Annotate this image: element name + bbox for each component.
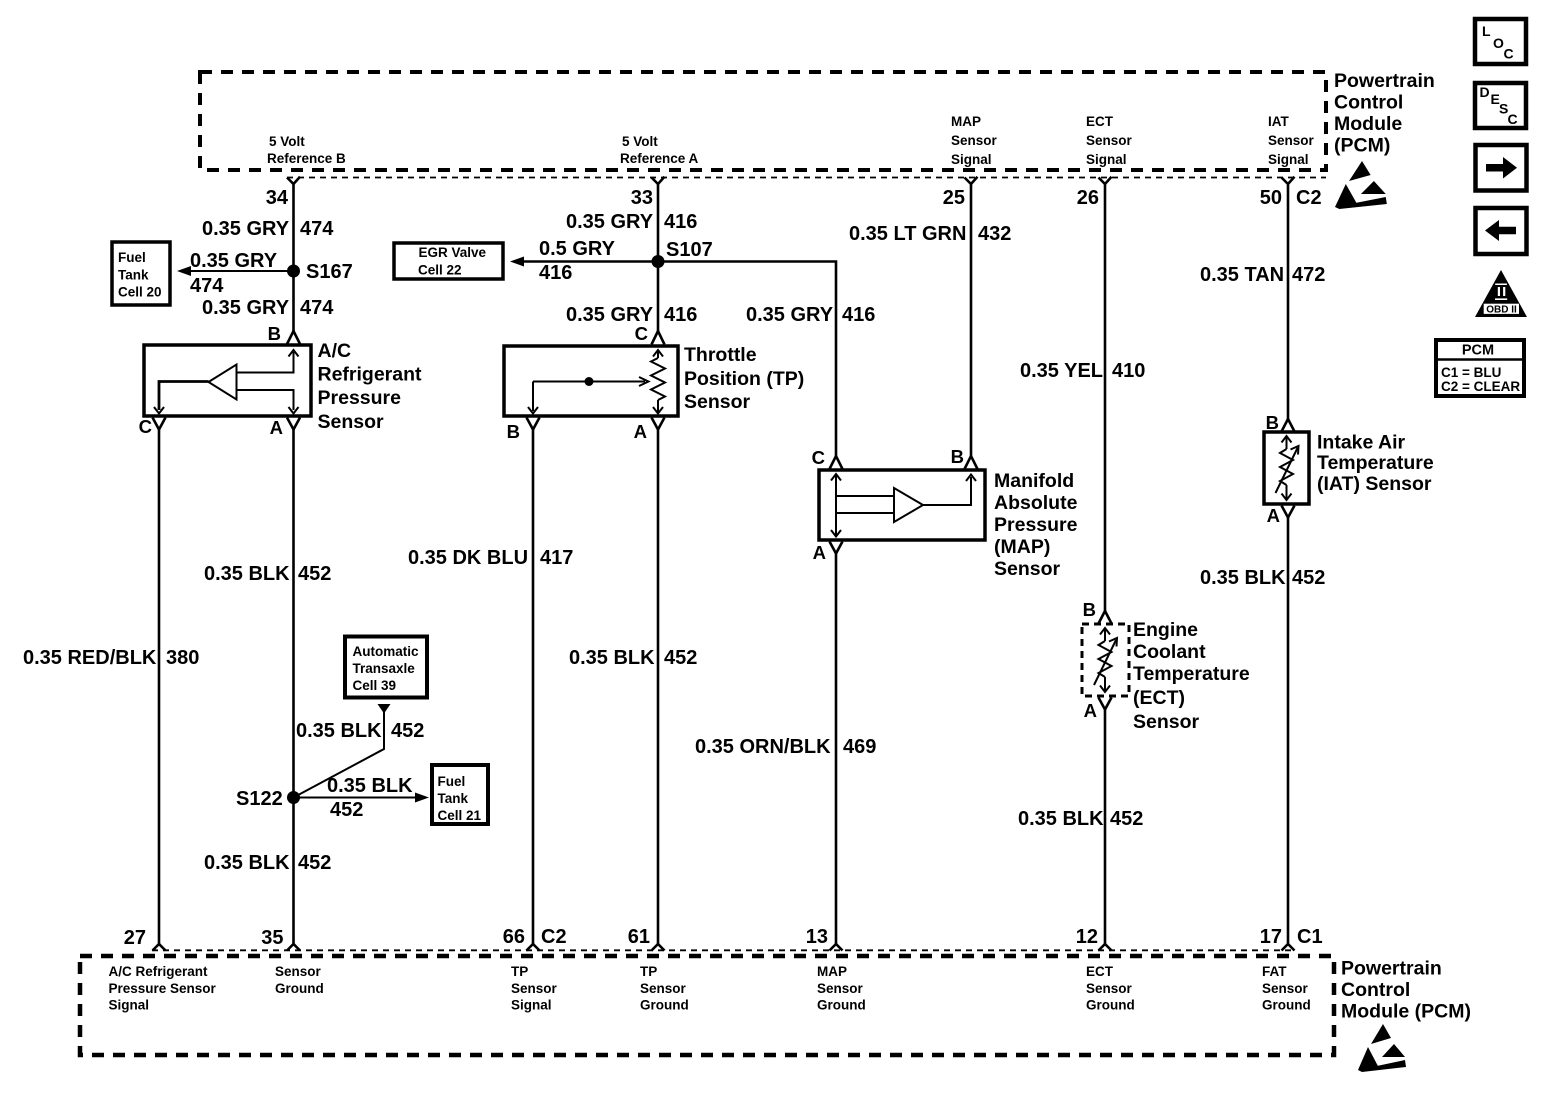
svg-text:416: 416 — [539, 262, 572, 284]
net label MAP Sensor Signal — [951, 114, 998, 167]
svg-text:B: B — [268, 323, 281, 344]
svg-text:C: C — [635, 323, 648, 344]
svg-text:Ground: Ground — [640, 998, 689, 1013]
pin 61 — [628, 926, 665, 951]
svg-text:TP: TP — [511, 964, 528, 979]
svg-text:17: 17 — [1260, 926, 1282, 948]
wire label 0.35 GRY 474 lower — [202, 297, 334, 319]
pin 66 C2 — [503, 926, 567, 951]
svg-text:C: C — [812, 447, 825, 468]
svg-text:0.35 BLK: 0.35 BLK — [1018, 808, 1104, 830]
svg-text:Sensor: Sensor — [511, 981, 558, 996]
svg-text:0.35 BLK: 0.35 BLK — [327, 775, 413, 797]
svg-text:452: 452 — [298, 563, 331, 585]
svg-text:25: 25 — [943, 187, 965, 209]
pin function label A/C Refrigerant Pressure Sensor Signal — [109, 964, 217, 1013]
splice S107 — [652, 239, 713, 268]
pin 17 C1 — [1260, 926, 1323, 951]
splice S122 — [236, 788, 300, 810]
svg-text:Position (TP): Position (TP) — [684, 368, 804, 390]
svg-text:A/C: A/C — [318, 340, 352, 362]
svg-text:Signal: Signal — [109, 998, 150, 1013]
Engine Coolant Temperature Sensor U4 (thermistor) — [1082, 624, 1129, 696]
svg-text:Temperature: Temperature — [1317, 452, 1434, 474]
wire label 0.35 GRY 416 lower (TP C) — [566, 304, 697, 326]
svg-text:50: 50 — [1260, 187, 1282, 209]
svg-text:5 Volt: 5 Volt — [269, 134, 305, 149]
wire 469 (MAP A to pin 13) — [835, 554, 838, 945]
svg-text:410: 410 — [1112, 360, 1145, 382]
PCM bottom dashed box — [80, 956, 1334, 1055]
svg-text:OBD II: OBD II — [1486, 304, 1517, 315]
wire 410 (pin 26 to ECT B) — [1104, 184, 1107, 611]
wire S122 branch to Fuel Tank Cell 21 — [294, 775, 430, 821]
svg-text:Sensor: Sensor — [1268, 133, 1315, 148]
svg-text:D: D — [1480, 84, 1490, 100]
svg-text:Reference A: Reference A — [620, 151, 699, 166]
svg-text:Control: Control — [1334, 92, 1403, 114]
svg-text:A: A — [813, 542, 826, 563]
svg-text:0.35 LT GRN: 0.35 LT GRN — [849, 223, 966, 245]
svg-text:26: 26 — [1077, 187, 1099, 209]
svg-text:416: 416 — [842, 304, 875, 326]
wire label 0.35 DK BLU 417 — [408, 547, 573, 569]
pin function label ECT Sensor Ground — [1086, 964, 1135, 1013]
pin function label Sensor Ground — [275, 964, 324, 996]
svg-text:452: 452 — [391, 720, 424, 742]
svg-text:0.35 DK BLU: 0.35 DK BLU — [408, 547, 528, 569]
svg-text:0.35 GRY: 0.35 GRY — [566, 211, 654, 233]
svg-text:35: 35 — [261, 927, 283, 949]
wire 452 (ECT A to pin 12) — [1104, 710, 1107, 945]
legend left-arrow icon — [1476, 208, 1527, 254]
svg-text:Sensor: Sensor — [1133, 711, 1200, 733]
svg-text:Absolute: Absolute — [994, 492, 1078, 514]
MAP sensor name — [994, 470, 1078, 580]
svg-text:PCM: PCM — [1462, 343, 1494, 359]
svg-text:Sensor: Sensor — [684, 391, 751, 413]
svg-text:27: 27 — [124, 927, 146, 949]
svg-text:Sensor: Sensor — [951, 133, 998, 148]
wire 416 (pin 33 to S107 to TP C) — [657, 184, 660, 331]
pin C of MAP sensor — [812, 447, 843, 469]
svg-text:Fuel: Fuel — [118, 250, 146, 265]
svg-text:ECT: ECT — [1086, 964, 1114, 979]
svg-text:432: 432 — [978, 223, 1011, 245]
svg-text:452: 452 — [1292, 567, 1325, 589]
svg-text:417: 417 — [540, 547, 573, 569]
svg-text:Throttle: Throttle — [684, 344, 757, 366]
svg-text:Sensor: Sensor — [994, 558, 1061, 580]
svg-text:0.35 ORN/BLK: 0.35 ORN/BLK — [695, 736, 831, 758]
svg-text:5 Volt: 5 Volt — [622, 134, 658, 149]
svg-text:MAP: MAP — [817, 964, 847, 979]
svg-text:Reference B: Reference B — [267, 151, 346, 166]
legend LOC icon — [1475, 19, 1526, 64]
svg-text:S122: S122 — [236, 788, 283, 810]
svg-text:O: O — [1493, 35, 1504, 51]
off-page ref Automatic Transaxle Cell 39 — [345, 637, 427, 698]
wire S107 branch to EGR Valve — [510, 238, 652, 284]
svg-text:B: B — [507, 421, 520, 442]
svg-text:Manifold: Manifold — [994, 470, 1074, 492]
svg-text:C2 = CLEAR: C2 = CLEAR — [1441, 379, 1520, 394]
legend PCM connector colors — [1436, 340, 1524, 396]
wire label 0.35 GRY 474 upper — [202, 218, 334, 240]
svg-text:IAT: IAT — [1268, 114, 1289, 129]
svg-text:MAP: MAP — [951, 114, 981, 129]
svg-text:0.5 GRY: 0.5 GRY — [539, 238, 616, 260]
wire label 0.35 BLK 452 (ECT ground) — [1018, 808, 1143, 830]
svg-text:Coolant: Coolant — [1133, 641, 1206, 663]
svg-text:Ground: Ground — [1262, 998, 1311, 1013]
svg-text:469: 469 — [843, 736, 876, 758]
wire label 0.35 YEL 410 — [1020, 360, 1145, 382]
svg-text:Control: Control — [1341, 979, 1410, 1001]
pin A of ECT sensor — [1084, 698, 1112, 722]
svg-text:Ground: Ground — [275, 981, 324, 996]
pin 50 C2 — [1260, 177, 1322, 209]
ECT sensor name — [1133, 619, 1250, 733]
pin 33 — [631, 177, 665, 209]
svg-text:Tank: Tank — [118, 267, 149, 282]
svg-text:34: 34 — [266, 187, 289, 209]
svg-text:Temperature: Temperature — [1133, 663, 1250, 685]
svg-text:452: 452 — [664, 647, 697, 669]
wire label 0.35 ORN/BLK 469 — [695, 736, 876, 758]
wire label 0.35 LT GRN 432 — [849, 223, 1011, 245]
svg-text:474: 474 — [300, 297, 334, 319]
svg-text:Ground: Ground — [817, 998, 866, 1013]
pin function label TP Sensor Signal — [511, 964, 558, 1013]
svg-text:(ECT): (ECT) — [1133, 687, 1185, 709]
svg-text:Cell 39: Cell 39 — [353, 678, 397, 693]
off-page ref Fuel Tank Cell 20 — [112, 242, 170, 305]
svg-text:C2: C2 — [1296, 187, 1322, 209]
wire 432 (pin 25 to MAP B) — [970, 184, 973, 456]
svg-text:C: C — [139, 416, 152, 437]
splice S167 — [287, 261, 353, 283]
svg-text:0.35 RED/BLK: 0.35 RED/BLK — [23, 647, 157, 669]
svg-text:380: 380 — [166, 647, 199, 669]
net label IAT Sensor Signal — [1268, 114, 1315, 167]
pin C of A/C sensor — [139, 416, 166, 437]
svg-text:C2: C2 — [541, 926, 567, 948]
svg-text:66: 66 — [503, 926, 525, 948]
svg-text:TP: TP — [640, 964, 657, 979]
svg-text:B: B — [1083, 599, 1096, 620]
svg-text:0.35 BLK: 0.35 BLK — [204, 852, 290, 874]
svg-text:Automatic: Automatic — [353, 644, 419, 659]
svg-text:0.35 YEL: 0.35 YEL — [1020, 360, 1103, 382]
A/C sensor name — [318, 340, 423, 433]
svg-text:Fuel: Fuel — [438, 774, 466, 789]
svg-text:Refrigerant: Refrigerant — [318, 364, 423, 386]
pin B of TP sensor — [507, 418, 540, 443]
svg-text:Pressure: Pressure — [318, 387, 402, 409]
svg-text:0.35 GRY: 0.35 GRY — [190, 250, 278, 272]
svg-text:Sensor: Sensor — [318, 411, 385, 433]
svg-text:A: A — [1267, 505, 1280, 526]
PCM top connector thin dashed line — [287, 177, 1326, 179]
svg-text:Ground: Ground — [1086, 998, 1135, 1013]
svg-text:452: 452 — [1110, 808, 1143, 830]
wire label 0.35 BLK 452 (IAT ground) — [1200, 567, 1325, 589]
svg-text:Module (PCM): Module (PCM) — [1341, 1001, 1471, 1023]
svg-text:Sensor: Sensor — [1262, 981, 1309, 996]
wire label 0.35 BLK 452 upper — [204, 563, 331, 585]
pin 13 — [806, 926, 843, 951]
svg-text:416: 416 — [664, 211, 697, 233]
svg-text:Powertrain: Powertrain — [1334, 70, 1435, 92]
wire label 0.35 BLK 452 (TP ground) — [569, 647, 697, 669]
Intake Air Temperature Sensor U5 (thermistor) — [1264, 432, 1309, 504]
svg-text:61: 61 — [628, 926, 650, 948]
off-page ref EGR Valve Cell 22 — [394, 243, 503, 279]
wire 452 (IAT A to pin 17) — [1287, 518, 1290, 945]
wire label 0.35 TAN 472 — [1200, 264, 1325, 286]
svg-text:474: 474 — [190, 275, 224, 297]
svg-text:Cell 20: Cell 20 — [118, 285, 162, 300]
svg-text:Powertrain: Powertrain — [1341, 958, 1442, 980]
wire label 0.35 GRY 416 (MAP branch) — [746, 304, 875, 326]
wire 452 (TP A to pin 61) — [657, 430, 660, 945]
svg-text:A: A — [270, 417, 283, 438]
svg-text:Tank: Tank — [438, 791, 469, 806]
PCM top dashed box — [200, 72, 1326, 170]
svg-text:0.35 GRY: 0.35 GRY — [202, 218, 290, 240]
svg-text:(IAT) Sensor: (IAT) Sensor — [1317, 473, 1432, 495]
pin A of IAT sensor — [1267, 505, 1295, 526]
PCM top label — [1334, 70, 1435, 157]
net label 5 Volt Reference A — [620, 134, 699, 166]
wire 417 (TP B to pin 66) — [532, 430, 535, 945]
svg-text:C1 = BLU: C1 = BLU — [1441, 365, 1501, 380]
svg-text:A: A — [1084, 700, 1097, 721]
svg-text:ECT: ECT — [1086, 114, 1114, 129]
pin B of IAT sensor — [1266, 412, 1295, 433]
legend DESC icon — [1475, 83, 1526, 128]
svg-text:Engine: Engine — [1133, 619, 1198, 641]
pin B of ECT sensor — [1083, 599, 1112, 624]
svg-text:Sensor: Sensor — [640, 981, 687, 996]
pin 26 — [1077, 177, 1112, 209]
pin C of TP sensor — [635, 323, 665, 345]
PCM bottom connector thin dashed line — [152, 949, 1294, 951]
svg-text:Sensor: Sensor — [1086, 981, 1133, 996]
Manifold Absolute Pressure Sensor U3 — [819, 470, 985, 540]
svg-text:Sensor: Sensor — [1086, 133, 1133, 148]
ESD symbol top — [1335, 161, 1387, 209]
pin 35 — [261, 927, 300, 951]
svg-text:Transaxle: Transaxle — [353, 661, 416, 676]
pin A of MAP sensor — [813, 542, 843, 564]
svg-text:Signal: Signal — [511, 998, 552, 1013]
IAT sensor name — [1317, 432, 1434, 496]
svg-text:Signal: Signal — [1268, 152, 1309, 167]
svg-text:0.35 GRY: 0.35 GRY — [202, 297, 290, 319]
svg-text:0.35 TAN: 0.35 TAN — [1200, 264, 1284, 286]
pin 27 — [124, 927, 166, 951]
svg-text:474: 474 — [300, 218, 334, 240]
wire S122 branch to Automatic Transaxle — [294, 704, 425, 798]
pin 12 — [1076, 926, 1112, 951]
wire label 0.35 GRY 416 upper — [566, 211, 697, 233]
ESD symbol bottom — [1358, 1024, 1406, 1072]
off-page ref Fuel Tank Cell 21 — [432, 765, 488, 824]
svg-text:A/C Refrigerant: A/C Refrigerant — [109, 964, 209, 979]
Throttle Position Sensor U2 — [504, 346, 678, 416]
svg-text:452: 452 — [330, 799, 363, 821]
PCM bottom label — [1341, 958, 1471, 1023]
svg-text:(MAP): (MAP) — [994, 536, 1050, 558]
net label ECT Sensor Signal — [1086, 114, 1133, 167]
svg-text:416: 416 — [664, 304, 697, 326]
svg-text:B: B — [951, 446, 964, 467]
pin A of TP sensor — [634, 418, 665, 443]
svg-text:FAT: FAT — [1262, 964, 1287, 979]
svg-text:EGR Valve: EGR Valve — [419, 245, 487, 260]
svg-text:Signal: Signal — [1086, 152, 1127, 167]
svg-text:C: C — [1504, 46, 1514, 62]
svg-text:(PCM): (PCM) — [1334, 135, 1390, 157]
wire label 0.35 RED/BLK 380 — [23, 647, 199, 669]
TP sensor name — [684, 344, 804, 413]
A/C Refrigerant Pressure Sensor U1 — [144, 345, 311, 416]
svg-text:Sensor: Sensor — [275, 964, 322, 979]
svg-text:0.35 GRY: 0.35 GRY — [746, 304, 834, 326]
wire 380 (A/C signal to pin 27) — [158, 430, 161, 945]
svg-text:Pressure Sensor: Pressure Sensor — [109, 981, 217, 996]
svg-text:Cell 21: Cell 21 — [438, 808, 482, 823]
pin function label TP Sensor Ground — [640, 964, 689, 1013]
wire 474 upper (pin 34 to S167 to A/C B) — [292, 184, 295, 331]
svg-text:Cell 22: Cell 22 — [418, 263, 462, 278]
svg-text:12: 12 — [1076, 926, 1098, 948]
pin B of A/C sensor — [268, 323, 300, 344]
pin 34 — [266, 177, 300, 209]
svg-text:C: C — [1508, 111, 1518, 127]
pin B of MAP sensor — [951, 446, 978, 469]
svg-text:33: 33 — [631, 187, 653, 209]
wire label 0.35 BLK 452 lower — [204, 852, 331, 874]
svg-text:0.35 BLK: 0.35 BLK — [296, 720, 382, 742]
svg-text:0.35 BLK: 0.35 BLK — [204, 563, 290, 585]
legend OBD II icon — [1475, 270, 1527, 317]
svg-text:Intake Air: Intake Air — [1317, 432, 1406, 454]
pin 25 — [943, 177, 978, 209]
wire 452 sensor ground (A/C A to S122 to pin 35) — [292, 430, 295, 945]
svg-text:Signal: Signal — [951, 152, 992, 167]
wire S167 branch to Fuel Tank Cell 20 — [177, 250, 288, 297]
svg-text:13: 13 — [806, 926, 828, 948]
net label 5 Volt Reference B — [267, 134, 346, 166]
svg-text:0.35 BLK: 0.35 BLK — [1200, 567, 1286, 589]
svg-text:C1: C1 — [1297, 926, 1323, 948]
legend right-arrow icon — [1476, 145, 1527, 191]
svg-text:0.35 BLK: 0.35 BLK — [569, 647, 655, 669]
svg-text:S107: S107 — [666, 239, 713, 261]
svg-text:Sensor: Sensor — [817, 981, 864, 996]
wire S107 branch to MAP C — [658, 262, 836, 457]
svg-text:472: 472 — [1292, 264, 1325, 286]
svg-text:452: 452 — [298, 852, 331, 874]
svg-text:Module: Module — [1334, 113, 1402, 135]
pin A of A/C sensor — [270, 417, 300, 438]
svg-text:B: B — [1266, 412, 1279, 433]
svg-text:L: L — [1482, 23, 1491, 39]
svg-text:Pressure: Pressure — [994, 514, 1078, 536]
svg-text:S167: S167 — [306, 261, 353, 283]
pin function label MAP Sensor Ground — [817, 964, 866, 1013]
pin function label FAT Sensor Ground — [1262, 964, 1311, 1013]
svg-text:A: A — [634, 421, 647, 442]
wire 472 (pin 50 to IAT B) — [1287, 184, 1290, 419]
